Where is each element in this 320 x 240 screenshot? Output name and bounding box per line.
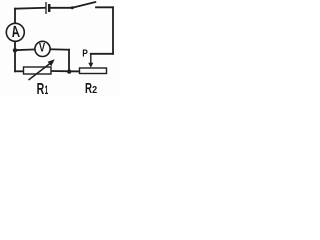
svg-text:V: V (39, 41, 45, 55)
rheostat R1 body (24, 67, 52, 74)
junction node on left wire (voltmeter tap) (13, 48, 17, 52)
svg-text:1: 1 (45, 85, 49, 97)
wire bottom-left horizontal to R1 (15, 70, 24, 72)
switch pivot dot (71, 6, 74, 9)
svg-text:R: R (85, 80, 92, 97)
wire switch right contact to top-right corner (96, 6, 113, 8)
wire slider vertical to wiper arrow (90, 54, 92, 64)
ammeter A1 circle (6, 23, 24, 41)
svg-text:2: 2 (92, 84, 97, 96)
wire slider top horizontal (91, 53, 113, 55)
wire voltmeter right branch (50, 48, 69, 50)
switch blade (open) (72, 2, 95, 8)
wire left vertical (ammeter to bottom corner) (14, 42, 16, 72)
potentiometer R2 body (80, 68, 107, 74)
svg-text:P: P (82, 49, 88, 60)
rheostat R1 arrowhead (48, 59, 55, 66)
wire right vertical (112, 7, 114, 54)
svg-text:R: R (37, 81, 45, 97)
voltmeter V1 circle (35, 41, 50, 56)
junction node on bottom wire (67, 69, 71, 73)
wire voltmeter left branch (15, 48, 35, 51)
wire left vertical (top corner to ammeter) (14, 9, 16, 24)
potentiometer R2 wiper arrowhead (88, 63, 93, 68)
battery cell short thick plate (-) (48, 4, 51, 12)
wire battery right to switch pivot (51, 7, 72, 9)
rheostat R1 arrow (29, 64, 51, 81)
battery cell long plate (+) (45, 2, 47, 14)
wire bottom middle (R1 right to R2 left) (51, 70, 80, 72)
wire top-left horizontal (15, 7, 45, 10)
wire vertical from voltmeter branch down to bottom node (68, 50, 70, 72)
